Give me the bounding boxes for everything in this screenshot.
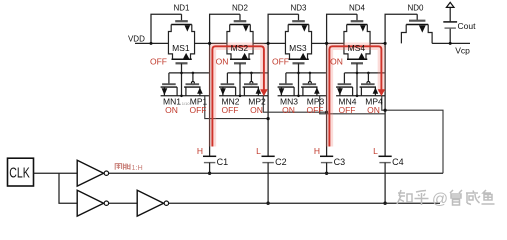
svg-text:ND4: ND4 [349, 3, 366, 12]
wire chain at stage 2 output [253, 42, 268, 44]
svg-text:C1: C1 [217, 157, 229, 167]
wire center tail stage 4 [356, 63, 358, 96]
capacitor C2 [262, 156, 275, 162]
transistor MP1 [184, 73, 203, 96]
wire node N1 column [209, 43, 211, 156]
wire branch to lower buffer [59, 173, 77, 203]
wire bottom rail stage 3 [278, 95, 327, 97]
transistor MS4 [344, 14, 370, 63]
wire chain into stage 3 [268, 42, 285, 44]
gate bus wire stage 2 [227, 72, 268, 74]
gate bus wire stage 4 [344, 72, 385, 74]
wire center tail stage 2 [239, 63, 241, 96]
transistor MS1 [168, 14, 194, 63]
svg-text:OFF: OFF [222, 105, 239, 115]
inverter U3 [137, 190, 168, 216]
capacitor C3 [320, 156, 333, 162]
transistor MN1 [161, 73, 178, 96]
svg-text:ND2: ND2 [232, 3, 249, 12]
svg-text:OFF: OFF [307, 105, 324, 115]
transistor MS3 [285, 14, 311, 63]
svg-text:ND3: ND3 [290, 3, 307, 12]
svg-text:MS1: MS1 [172, 43, 190, 53]
annotation period 1: H [115, 163, 130, 169]
svg-text:H: H [314, 146, 320, 156]
wire bottom rail stage 4 [336, 95, 385, 97]
wire U2 to U3 [109, 202, 137, 204]
wire C4 bottom lead [384, 163, 386, 204]
transistor ND0 output switch [401, 14, 432, 43]
wire node N3 column [326, 43, 328, 156]
wire chain into stage 4 [327, 42, 344, 44]
svg-text:@: @ [432, 191, 448, 208]
svg-text:C2: C2 [275, 157, 287, 167]
capacitor C4 [379, 156, 392, 162]
svg-text:1:H: 1:H [132, 163, 143, 172]
transistor MN4 [336, 73, 353, 96]
wire stage2 rail feedback to node N3 [263, 96, 326, 112]
svg-text:OFF: OFF [150, 57, 167, 67]
svg-text:MS4: MS4 [348, 43, 366, 53]
wire output to Vcp [432, 42, 470, 44]
transistor MN2 [219, 73, 236, 96]
wire gate loop ND0 [385, 14, 417, 43]
svg-text:OFF: OFF [272, 57, 289, 67]
inverter U2 [77, 190, 108, 216]
transistor MP2 [243, 73, 262, 96]
svg-text:1/10: 1/10 [182, 101, 191, 106]
watermark [397, 190, 429, 205]
highlighted charge transfer path stage 2 [212, 46, 267, 146]
svg-text:ND1: ND1 [173, 3, 190, 12]
transistor MS2 [227, 14, 253, 63]
wire chain at stage 1 output [195, 42, 210, 44]
svg-text:C3: C3 [334, 157, 346, 167]
inverter U1 [77, 160, 108, 186]
wire bottom rail stage 2 [219, 95, 268, 97]
wire center tail stage 3 [298, 63, 300, 96]
wire stage3 rail feedback to node N4 [320, 96, 385, 114]
wire C2 bottom lead [267, 163, 269, 204]
svg-text:OFF: OFF [339, 105, 356, 115]
transistor MN3 [278, 73, 295, 96]
svg-text:MS2: MS2 [231, 43, 249, 53]
wire bottom rail stage 1 [161, 95, 210, 97]
svg-text:Vcp: Vcp [455, 45, 470, 55]
wire chain at stage 3 output [312, 42, 327, 44]
svg-text:CLK: CLK [9, 165, 30, 181]
CLK source box [8, 158, 34, 186]
wire phase rail L [169, 202, 440, 204]
wire C3 bottom lead [326, 163, 328, 174]
wire chain at stage 4 output [370, 42, 385, 44]
wire phase rail H [109, 172, 443, 174]
svg-text:ON: ON [330, 57, 343, 67]
svg-text:MS3: MS3 [289, 43, 307, 53]
highlighted charge transfer path stage 4 [329, 46, 385, 146]
wire center tail stage 1 [181, 63, 183, 96]
svg-text:ON: ON [367, 105, 380, 115]
transistor MP4 [360, 73, 379, 96]
svg-text:H: H [197, 146, 203, 156]
svg-text:Cout: Cout [458, 21, 477, 31]
wire CLK output [34, 172, 78, 174]
wire stage1 rail feedback to node N2 [205, 96, 268, 119]
wire gate loop ND2 [210, 14, 240, 43]
capacitor C1 [203, 156, 216, 162]
wire chain into stage 2 [210, 42, 227, 44]
svg-text:L: L [373, 146, 378, 156]
wire gate loop ND4 [327, 14, 357, 43]
terminal arrow above Cout [446, 2, 454, 7]
gate bus wire stage 1 [169, 72, 210, 74]
svg-text:ON: ON [282, 105, 295, 115]
wire C1 bottom lead [209, 163, 211, 174]
svg-text:ON: ON [250, 105, 263, 115]
capacitor Cout [443, 7, 457, 45]
svg-text:L: L [256, 146, 261, 156]
wire node N2 column [267, 43, 269, 156]
svg-text:ND0: ND0 [407, 3, 424, 12]
wire VDD input [135, 42, 168, 44]
transistor MP3 [301, 73, 320, 96]
svg-text:ON: ON [165, 105, 178, 115]
wire stage4 rail feedback to phase rail [382, 96, 443, 174]
svg-text:VDD: VDD [128, 34, 145, 43]
wire node N4 column [384, 43, 386, 156]
svg-text:C4: C4 [392, 157, 404, 167]
wire gate loop ND3 [268, 14, 298, 43]
gate bus wire stage 3 [286, 72, 327, 74]
wire gate loop ND1 [151, 14, 182, 43]
svg-text:ON: ON [216, 57, 229, 67]
svg-text:OFF: OFF [190, 105, 207, 115]
